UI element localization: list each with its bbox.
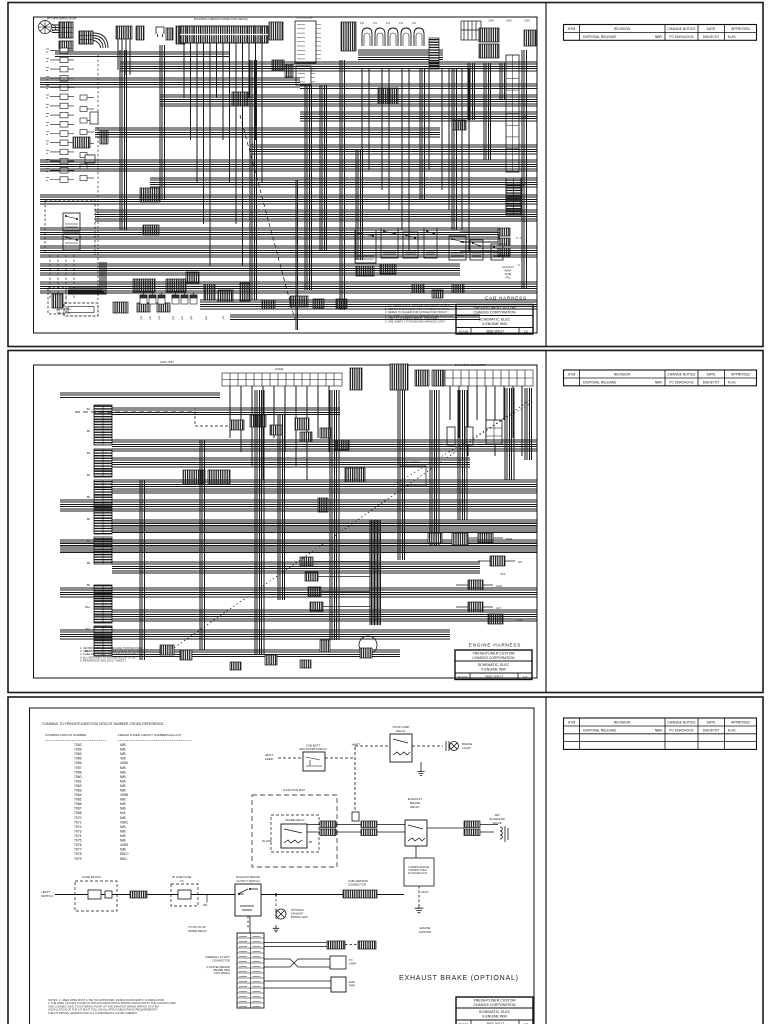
connector C301 <box>320 821 336 828</box>
svg-text:C140: C140 <box>488 20 494 23</box>
connector C157 <box>272 60 284 70</box>
svg-text:7070: 7070 <box>74 816 82 820</box>
elbow bundle <box>68 262 106 294</box>
svg-text:3662-20017: 3662-20017 <box>485 675 503 679</box>
svg-text:SCHEMATIC, ELEC: SCHEMATIC, ELEC <box>479 1010 511 1014</box>
wire sensor 3 lead <box>321 591 370 593</box>
svg-text:EXHAUST BRAKE (OPTIONAL): EXHAUST BRAKE (OPTIONAL) <box>399 975 519 982</box>
module pin list box M1 <box>295 21 321 63</box>
wire bus b <box>120 62 537 71</box>
wire p2 bus e <box>112 480 537 493</box>
connector C205 <box>230 420 244 430</box>
svg-text:B2: B2 <box>87 429 91 433</box>
wire bus e <box>300 112 537 121</box>
fuse F31 <box>352 812 359 821</box>
svg-text:APPROVED: APPROVED <box>731 721 750 725</box>
svg-text:SHUTDOWN RELAY: SHUTDOWN RELAY <box>299 747 327 751</box>
svg-text:DATE: DATE <box>707 27 717 31</box>
ground G31 <box>417 768 424 775</box>
relay K4 <box>381 228 398 258</box>
connector sensor OILP <box>468 580 483 590</box>
relay K1 <box>63 213 80 231</box>
svg-text:1/2: 1/2 <box>524 329 529 333</box>
svg-text:NBR: NBR <box>655 729 663 733</box>
svg-text:OILP: OILP <box>496 584 503 588</box>
connector C238 <box>300 660 311 668</box>
svg-text:B3: B3 <box>87 451 91 455</box>
page 1 diagram frame <box>34 17 538 333</box>
svg-text:DISPOSAL RELEASE: DISPOSAL RELEASE <box>583 381 617 385</box>
wire p2 bus c <box>112 440 537 451</box>
svg-text:7064: 7064 <box>74 793 82 797</box>
connector S3 sensor <box>308 587 321 596</box>
svg-text:C146: C146 <box>524 20 530 23</box>
svg-text:REL 8/7/07: REL 8/7/07 <box>57 311 70 315</box>
relay K31 cab shutdown <box>303 752 325 771</box>
connector C211 <box>335 440 349 450</box>
connector hatch column <box>429 38 439 69</box>
connector C153 <box>380 264 396 274</box>
svg-text:N/B: N/B <box>120 766 126 770</box>
connector C236 <box>452 533 468 545</box>
wire bus j <box>40 195 537 204</box>
svg-text:DSN 8/7/07: DSN 8/7/07 <box>703 729 720 733</box>
wire p2 drop h <box>505 388 514 480</box>
svg-text:CUTOUT SWITCH: CUTOUT SWITCH <box>236 879 259 883</box>
wire p2 drop k <box>200 440 204 650</box>
dashed box spare relay box <box>271 815 319 852</box>
wire bus d <box>160 95 537 106</box>
svg-text:C143: C143 <box>506 20 512 23</box>
connector C145 <box>204 284 215 300</box>
svg-text:NBR: NBR <box>655 35 663 39</box>
svg-text:N/B: N/B <box>120 770 126 774</box>
svg-text:SCHEMATIC, ELEC: SCHEMATIC, ELEC <box>478 663 510 667</box>
wire p2 bus d <box>112 458 470 467</box>
component fan circle <box>359 636 377 654</box>
wire p2 bus f <box>60 500 537 511</box>
connector C128 <box>90 112 98 124</box>
connector C237 <box>230 662 241 670</box>
svg-text:B4: B4 <box>87 473 91 477</box>
connector sensor FUEL <box>488 614 503 624</box>
connector C105a <box>166 28 173 40</box>
connector grid C <box>59 41 73 49</box>
connector P2 ladder b <box>94 480 112 534</box>
title block page 1 <box>456 305 533 335</box>
svg-text:7075: 7075 <box>74 839 82 843</box>
svg-text:M.JH.: M.JH. <box>728 35 736 39</box>
connector C151 <box>336 299 347 308</box>
wire strip CS1 pin drops <box>230 386 329 480</box>
svg-text:LIGHT: LIGHT <box>462 746 471 750</box>
xref number lists <box>74 743 129 861</box>
connector C154 <box>285 65 293 77</box>
connector S4 sensor <box>310 602 323 611</box>
wire p2 drop f <box>430 390 439 545</box>
wire diagonal dashed p2b <box>390 402 533 487</box>
wire p2 bus a <box>60 393 220 397</box>
wire dashed batt feed <box>278 757 355 759</box>
svg-text:7061: 7061 <box>74 779 82 783</box>
svg-text:CLT: CLT <box>496 606 501 610</box>
wire drop q <box>522 50 526 288</box>
wire dashed feed <box>75 411 195 413</box>
connector C215 <box>400 466 426 486</box>
svg-text:7065: 7065 <box>74 798 82 802</box>
svg-text:7060: 7060 <box>74 775 82 779</box>
wire bus k <box>95 210 537 221</box>
wire p2 bus k <box>112 610 537 621</box>
wire bus f <box>95 128 440 137</box>
dashed box small opt box <box>48 288 66 314</box>
wire p2 bus b <box>112 408 340 415</box>
svg-text:CUMMINS TO FREIGHTLINER ECM CI: CUMMINS TO FREIGHTLINER ECM CIRCUIT NUMB… <box>42 722 164 726</box>
wire bus a <box>55 52 230 56</box>
svg-text:NBR: NBR <box>655 381 663 385</box>
svg-text:RELAY: RELAY <box>396 729 406 733</box>
page 2 diagram frame <box>34 365 538 678</box>
curved bundle loops <box>93 33 108 48</box>
wire logo leads <box>52 25 59 33</box>
svg-text:N/B: N/B <box>120 798 126 802</box>
connector VP ladder 1 <box>506 55 519 172</box>
connector C203 <box>415 370 429 386</box>
wire drop r <box>296 180 298 330</box>
relay K5 <box>403 232 418 258</box>
connector P2 ladder f <box>486 420 502 444</box>
relay K9 <box>491 244 503 260</box>
wire strip pin drops p1 <box>184 43 262 266</box>
connector C133 <box>143 225 159 235</box>
svg-text:PC EURO4CH B: PC EURO4CH B <box>670 35 694 39</box>
connector C102 <box>136 26 144 40</box>
lamp L31 brake light <box>446 741 459 751</box>
wire stop relay ground <box>420 762 422 768</box>
svg-text:7076: 7076 <box>74 843 82 847</box>
page 2 sheet <box>8 351 763 693</box>
component lamp module <box>330 956 346 969</box>
connector S2 sensor <box>305 572 318 581</box>
svg-text:30 AMP: 30 AMP <box>262 839 272 843</box>
svg-text:N/B: N/B <box>120 748 126 752</box>
connector grid B <box>79 31 93 44</box>
svg-text:CUMMINS CIRCUIT NUMBER: CUMMINS CIRCUIT NUMBER <box>45 733 87 737</box>
svg-text:7079: 7079 <box>74 857 82 861</box>
dashed box ecu module <box>45 200 95 255</box>
svg-text:N/B: N/B <box>120 816 126 820</box>
fuse F32 <box>88 890 101 899</box>
svg-text:DISPOSAL RELEASE: DISPOSAL RELEASE <box>583 729 617 733</box>
wire pair 3 <box>264 981 331 988</box>
wire strip CS2 pin drops <box>450 386 522 456</box>
connector C107 <box>269 22 283 40</box>
relay K34 exhaust brake <box>405 820 427 846</box>
page 2 sheet divider <box>545 351 547 692</box>
wire sensor 4 lead <box>323 606 370 608</box>
svg-text:TO: TO <box>349 958 353 962</box>
connector C122 <box>479 28 499 42</box>
wire relay array drops <box>362 69 469 250</box>
wire bus i <box>150 178 537 187</box>
wire p2 bus m <box>112 650 400 657</box>
svg-text:7057: 7057 <box>74 766 82 770</box>
connector C231 <box>180 650 192 660</box>
wire relay bus band <box>358 50 443 60</box>
dashed box p2 dash option <box>195 408 230 426</box>
connector C306 <box>464 829 480 836</box>
connector C206 <box>250 415 266 427</box>
svg-text:GROUND: GROUND <box>419 930 431 934</box>
dashed box junction box <box>252 795 337 867</box>
wire bus n <box>40 264 460 275</box>
svg-text:N/B: N/B <box>120 789 126 793</box>
connector C108 <box>341 22 356 51</box>
wire p2 drop d <box>370 520 381 625</box>
wire p2 drop i <box>525 388 532 460</box>
wire bus c <box>40 78 300 87</box>
relay K33 spare <box>281 824 307 848</box>
svg-text:7055: 7055 <box>74 757 82 761</box>
wire bus h <box>40 160 537 171</box>
title block page 3 <box>456 997 533 1024</box>
relay K6 <box>424 228 437 258</box>
svg-text:N/A: N/A <box>120 779 126 783</box>
wire bus q <box>230 315 480 319</box>
connector C131 <box>85 155 95 163</box>
svg-text:MFR 2/4/02: MFR 2/4/02 <box>57 307 71 311</box>
connector C209 <box>300 432 312 442</box>
wire relay to valve <box>427 827 464 829</box>
svg-text:B1: B1 <box>87 407 91 411</box>
connector VP dark block <box>506 178 521 215</box>
connector C156 <box>232 92 248 106</box>
svg-text:+BATT: +BATT <box>421 891 429 894</box>
connector P2 ladder a2 <box>94 449 112 477</box>
connector P2 ladder d <box>94 585 112 623</box>
connector strip main bulkhead <box>180 26 268 43</box>
fuse F34 <box>178 890 191 899</box>
svg-text:K13: K13 <box>399 23 404 25</box>
svg-text:EBC-: EBC- <box>120 857 128 861</box>
svg-text:SPARE RELAY: SPARE RELAY <box>188 929 207 933</box>
connector C303 <box>361 821 377 828</box>
svg-text:M.JH.: M.JH. <box>728 381 736 385</box>
connector C305 <box>464 821 480 828</box>
wire switch to spare relay <box>247 916 249 928</box>
svg-text:M.JH.: M.JH. <box>728 729 736 733</box>
wire drop a <box>120 50 127 230</box>
notes block page 1 <box>385 304 453 324</box>
connector C162 <box>498 238 510 246</box>
svg-text:SYM: SYM <box>568 373 576 377</box>
ground G33 <box>273 925 280 932</box>
svg-text:7058: 7058 <box>74 770 82 774</box>
connector C207 <box>270 425 282 435</box>
solenoid coil L32 <box>480 825 508 843</box>
svg-text:BRAKE LAMP: BRAKE LAMP <box>291 915 308 919</box>
relay K2 <box>63 234 80 250</box>
svg-text:N/B: N/B <box>120 743 126 747</box>
wire drop s <box>356 150 363 260</box>
svg-text:PNL: PNL <box>506 277 511 280</box>
connector C136 <box>52 294 63 308</box>
svg-text:7066: 7066 <box>74 802 82 806</box>
svg-text:SYM: SYM <box>568 721 576 725</box>
wire bus o <box>40 282 537 293</box>
wire p2 drop g <box>458 390 467 520</box>
svg-text:B8: B8 <box>87 561 91 565</box>
wire drop f <box>320 85 327 250</box>
notes block page 3 <box>48 998 176 1015</box>
wire relay to cummins <box>415 846 417 858</box>
connector C163 <box>498 248 510 256</box>
wire CLT stub <box>456 606 493 608</box>
svg-text:EXHAUST: EXHAUST <box>291 912 304 916</box>
wire dashed stop relay to lamp <box>412 745 443 747</box>
svg-text:7072: 7072 <box>74 825 82 829</box>
svg-text:B10: B10 <box>85 605 90 609</box>
connector C232 <box>265 655 277 665</box>
svg-text:1/2: 1/2 <box>523 675 528 679</box>
wire diagonal dashed <box>240 115 295 320</box>
svg-text:7078: 7078 <box>74 852 82 856</box>
wire C101 drops <box>118 39 130 75</box>
wire pair 1 dashed <box>345 944 358 946</box>
svg-text:7053: 7053 <box>74 748 82 752</box>
wire bus m <box>40 246 537 257</box>
svg-text:SCALE: SCALE <box>458 675 468 679</box>
wire bus c2 <box>300 84 537 88</box>
svg-text:REVISION: REVISION <box>614 27 631 31</box>
svg-text:CHASSIS CORPORATION: CHASSIS CORPORATION <box>473 1003 516 1007</box>
svg-text:7A: 7A <box>180 879 184 883</box>
connector C204 <box>432 370 444 386</box>
svg-text:B5: B5 <box>87 495 91 499</box>
connector C144 <box>186 272 199 283</box>
svg-text:DISPOSAL RELEASE: DISPOSAL RELEASE <box>583 35 617 39</box>
wire drop n <box>468 63 475 120</box>
svg-text:N/B: N/B <box>120 839 126 843</box>
svg-text:KICK PANEL): KICK PANEL) <box>214 971 230 975</box>
hanging terminals <box>140 292 197 304</box>
wire IAT stub <box>478 560 515 562</box>
svg-text:7068: 7068 <box>74 811 82 815</box>
svg-text:439C: 439C <box>120 820 129 824</box>
svg-text:7077: 7077 <box>74 848 82 852</box>
svg-text:439B: 439B <box>120 793 129 797</box>
connector C140 <box>137 303 150 312</box>
svg-text:7062: 7062 <box>74 784 82 788</box>
wire OILP stub <box>456 584 493 586</box>
fuse F21 <box>447 427 473 445</box>
svg-text:439D: 439D <box>120 843 129 847</box>
dashed box fuse block <box>75 881 117 911</box>
svg-text:CHASSIS CORPORATION: CHASSIS CORPORATION <box>473 311 516 315</box>
connector C158 <box>452 120 466 130</box>
svg-text:RELAY: RELAY <box>410 805 420 809</box>
connector C156b <box>432 290 443 298</box>
connector C130 <box>73 137 90 148</box>
connector C121 <box>524 30 536 46</box>
svg-text:APPROVED: APPROVED <box>731 27 750 31</box>
svg-text:CHANGE NOTICE: CHANGE NOTICE <box>667 721 696 725</box>
connector P2 ladder c <box>94 537 112 564</box>
svg-text:N/B: N/B <box>120 784 126 788</box>
dashed bracket <box>516 238 522 265</box>
connector C159 <box>0 0 1 1</box>
revision table page 3 <box>564 718 757 749</box>
connector C129 <box>100 130 108 144</box>
svg-text:HVAC UNIT: HVAC UNIT <box>160 360 174 364</box>
connector C155b <box>412 284 424 293</box>
connector C311 cab harness <box>343 890 377 898</box>
fuse F33 <box>105 891 112 898</box>
svg-text:FEED: FEED <box>265 757 274 761</box>
svg-text:CHANGE NOTICE: CHANGE NOTICE <box>667 373 696 377</box>
connector C149 <box>290 296 308 307</box>
svg-text:W/ ENGINE ECM: W/ ENGINE ECM <box>408 872 427 875</box>
connector C202 <box>390 364 408 390</box>
wire drop p <box>500 63 504 100</box>
wire bus g <box>250 145 537 154</box>
wire bus p <box>200 300 537 309</box>
tiny vertical labels <box>139 316 225 321</box>
svg-text:439A: 439A <box>120 761 129 765</box>
wire lamp branch <box>275 895 277 909</box>
logo mark <box>39 21 56 34</box>
svg-text:THE KIT WIRING HARNESS AND ALL: THE KIT WIRING HARNESS AND ALL COMPONENT… <box>48 1011 137 1015</box>
connector C124 grid <box>378 88 398 104</box>
connector sensor CLT <box>468 602 483 612</box>
svg-text:JUNCTION BOX: JUNCTION BOX <box>283 788 305 792</box>
svg-text:CHASSIS CORPORATION: CHASSIS CORPORATION <box>472 656 515 660</box>
svg-text:REVISION: REVISION <box>614 721 631 725</box>
wire bus l <box>40 228 500 239</box>
wire junction to relay <box>307 825 361 833</box>
svg-text:85: 85 <box>309 840 313 844</box>
svg-text:FREIGHTLINER CUSTOM: FREIGHTLINER CUSTOM <box>474 999 516 1003</box>
svg-text:7073: 7073 <box>74 830 82 834</box>
svg-text:FUSE BLOCK: FUSE BLOCK <box>82 875 101 879</box>
connector C302 <box>320 829 336 836</box>
wire ladder feed top <box>249 916 251 933</box>
labels above relay glyphs <box>360 23 417 25</box>
wire p2 drop a <box>255 390 264 655</box>
wire stub spl <box>206 895 208 903</box>
wire pair 1 <box>264 943 327 947</box>
wire p2 drop j <box>140 480 144 660</box>
relay coil glyph row K10-K14 <box>362 28 424 46</box>
svg-text:X-ENGINE W90: X-ENGINE W90 <box>481 668 506 672</box>
svg-text:ENGINE HARNESS: ENGINE HARNESS <box>469 643 521 648</box>
relay K8 <box>470 240 483 260</box>
svg-text:5. REFERENCE 3662-20017 SHEET: 5. REFERENCE 3662-20017 SHEET 1 <box>80 658 127 662</box>
connector C146 <box>218 290 233 302</box>
svg-text:B9: B9 <box>87 583 91 587</box>
wire p2 bus g <box>112 520 537 533</box>
connector C157b <box>452 284 464 293</box>
connector S1 sensor <box>300 557 313 566</box>
revision table page 2 <box>564 370 757 386</box>
page 1 sheet <box>8 3 763 347</box>
svg-text:IAT: IAT <box>518 560 522 564</box>
lamp L33 optional <box>276 909 286 919</box>
wire drop g <box>340 60 344 310</box>
svg-text:SWITCH: SWITCH <box>41 894 53 898</box>
svg-text:BULKHEAD CONNECTOR: BULKHEAD CONNECTOR <box>455 363 486 367</box>
svg-text:DATE: DATE <box>707 373 717 377</box>
